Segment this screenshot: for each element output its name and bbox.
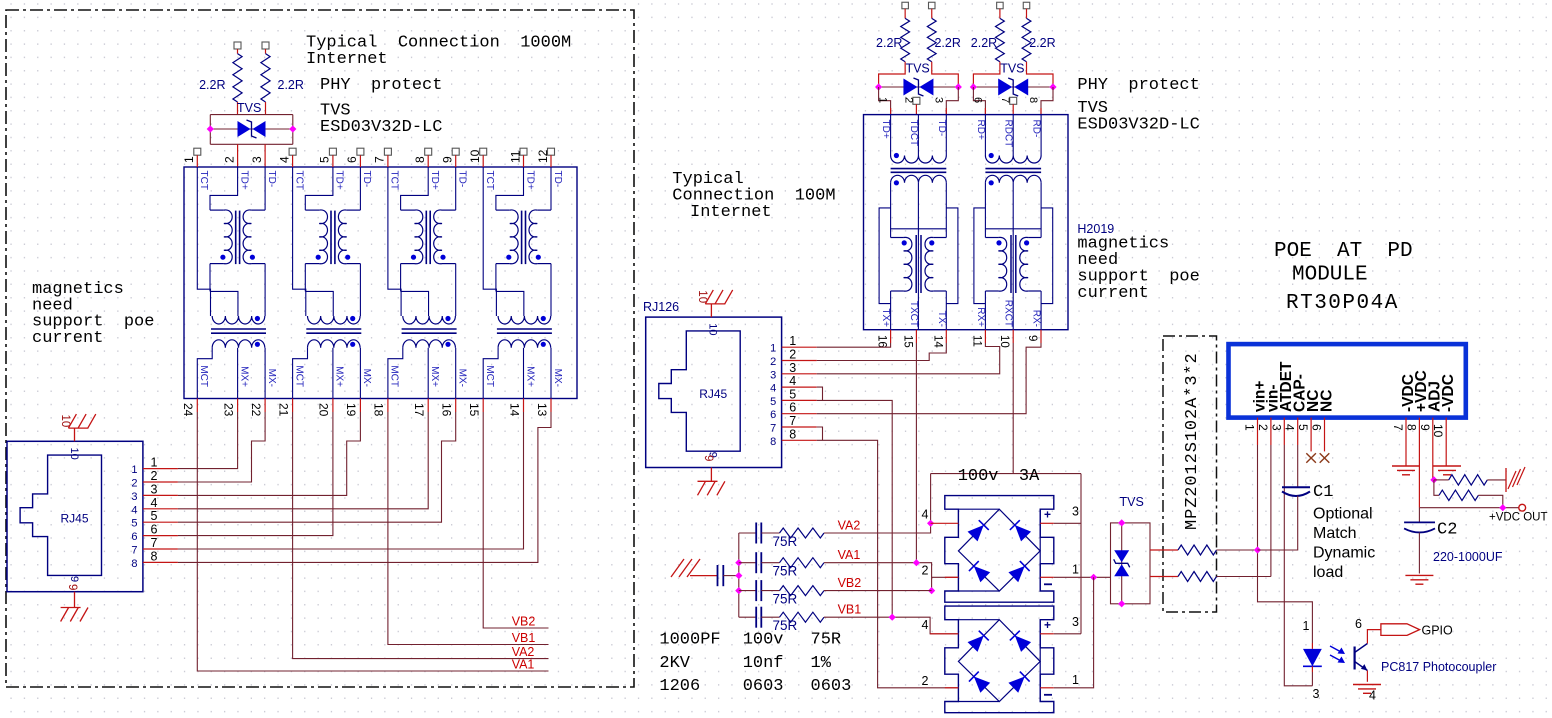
svg-text:-VDC: -VDC	[1440, 374, 1457, 412]
TVS2 loop wires	[1111, 523, 1151, 604]
channel 1 TCT wire	[197, 167, 210, 316]
wire cap to bus	[723, 575, 739, 577]
svg-text:15: 15	[467, 403, 481, 417]
capacitor 1000PF row VB2	[739, 590, 756, 592]
RJ45 left pin 5 stub	[143, 521, 178, 523]
svg-text:PHY protect: PHY protect	[320, 76, 442, 95]
wire net rj1-7 to pin14	[178, 412, 524, 549]
svg-text:14: 14	[931, 335, 943, 348]
svg-text:2.2R: 2.2R	[876, 36, 902, 50]
svg-text:VB2: VB2	[838, 576, 862, 590]
RJ45 left pin 9 wire	[74, 592, 76, 608]
wire net rj1-6 to pin20	[178, 412, 333, 536]
left section dash-dot border	[6, 10, 634, 687]
svg-text:8: 8	[1027, 97, 1039, 103]
svg-text:+VDC OUT: +VDC OUT	[1489, 512, 1547, 524]
svg-text:RX-: RX-	[1031, 310, 1042, 327]
svg-text:22: 22	[249, 403, 263, 417]
svg-text:Internet: Internet	[306, 50, 388, 69]
bridge B1 outline	[945, 496, 1054, 603]
svg-text:TD+: TD+	[429, 171, 440, 190]
wire net rj1-4 to pin17	[178, 412, 428, 509]
port +VDC OUT	[1519, 504, 1526, 511]
svg-text:75R: 75R	[773, 564, 798, 579]
TVS2 diode bidirectional	[1114, 550, 1129, 562]
resistor 2.2R right	[265, 49, 267, 54]
wire net rj1-1 to pin23	[178, 412, 238, 469]
svg-text:5: 5	[131, 518, 137, 530]
capacitor C1	[1282, 486, 1310, 488]
RJ126 pin 7 stub	[782, 426, 817, 428]
svg-text:C2: C2	[1437, 521, 1457, 540]
svg-text:ESD03V32D-LC: ESD03V32D-LC	[320, 118, 442, 137]
bridge B1 pin 1 stub	[1040, 576, 1054, 578]
svg-text:VA2: VA2	[838, 519, 861, 533]
svg-text:7: 7	[999, 97, 1011, 103]
wire bridge2 pin2 stub	[945, 687, 959, 689]
channel 2 transformer T2a core	[330, 211, 332, 265]
svg-text:RD+: RD+	[975, 120, 986, 140]
svg-text:7: 7	[151, 536, 158, 550]
svg-text:MX-: MX-	[361, 369, 372, 387]
svg-text:RD-: RD-	[1031, 120, 1042, 138]
block pin 17 bottom	[427, 399, 429, 413]
resistor 2.2R groupA right	[931, 9, 933, 19]
svg-text:4: 4	[922, 507, 929, 521]
block2 pin 11 bottom	[984, 330, 986, 343]
svg-text:TD-: TD-	[936, 120, 947, 137]
bridge B2 pin 1 stub	[1040, 687, 1054, 689]
100M chR right pin wire	[1040, 291, 1042, 330]
svg-text:10: 10	[68, 448, 80, 460]
RJ45 left pin 6 stub	[143, 535, 178, 537]
ferrite bead FB1	[1150, 549, 1178, 551]
svg-text:TD-: TD-	[552, 171, 563, 188]
resistor 75R row VB1	[761, 616, 779, 618]
100M chL lower transformer right coil	[933, 237, 946, 239]
svg-text:1: 1	[770, 343, 776, 355]
svg-text:3: 3	[131, 491, 137, 503]
svg-text:10: 10	[707, 323, 719, 335]
svg-text:TD-: TD-	[457, 171, 468, 188]
svg-text:MCT: MCT	[198, 365, 209, 387]
svg-text:1: 1	[877, 97, 889, 103]
ground C2	[1405, 574, 1433, 576]
svg-text:1: 1	[1243, 424, 1257, 431]
svg-text:4: 4	[789, 374, 796, 388]
wire net TXCT down to VA1	[915, 343, 917, 563]
svg-text:3: 3	[1313, 687, 1320, 701]
channel 4 transformer T4b top winding	[498, 316, 551, 324]
svg-text:4: 4	[1369, 689, 1376, 703]
bridge B1 diamond	[958, 509, 1040, 591]
bridge B1 pin 3 wire	[1040, 522, 1054, 524]
wires resistors to TVS line group A	[879, 62, 906, 87]
svg-text:RJ45: RJ45	[61, 511, 89, 525]
wire net VA1 row to bridge1 pin2	[824, 563, 932, 591]
svg-text:1: 1	[131, 464, 137, 476]
MPZ dash-dot box	[1163, 336, 1217, 612]
svg-text:TDCT: TDCT	[908, 120, 919, 147]
block pin 18 bottom	[387, 399, 389, 413]
wire TVS to block pins 2 3	[237, 144, 239, 167]
wire plus bus down to bridge pins 3	[1080, 474, 1082, 634]
svg-text:2: 2	[922, 674, 929, 688]
RJ45 connector outline	[646, 317, 782, 467]
svg-text:TVS: TVS	[1000, 62, 1024, 76]
svg-text:RX+: RX+	[975, 307, 986, 327]
svg-text:6: 6	[1355, 617, 1362, 631]
channel 3 center-tap tie wire	[401, 291, 429, 316]
block pin 6 top	[357, 148, 364, 155]
svg-text:2: 2	[789, 348, 796, 362]
wire ADJ pin9 down	[1432, 418, 1434, 480]
channel 1 transformer T1a core	[235, 211, 237, 265]
100M chR transformer core	[985, 168, 1041, 170]
wires TVS to block pins group B	[973, 87, 985, 115]
wire emitter to ground	[1366, 671, 1368, 682]
svg-text:GPIO: GPIO	[1422, 624, 1454, 638]
100M chR center tap long wire	[1012, 183, 1014, 330]
ladder bus vertical	[738, 533, 740, 617]
wires TVS to block pins group A	[879, 87, 891, 115]
svg-text:TVS: TVS	[237, 101, 261, 115]
wire plus bus horizontal	[931, 473, 1081, 475]
RJ126 pin 9 wire	[710, 468, 712, 482]
svg-text:MX-: MX-	[552, 369, 563, 387]
junction dots TVS loop	[207, 125, 214, 132]
wire net rj2-4 join pair	[817, 387, 823, 400]
svg-text:9: 9	[66, 584, 78, 590]
center pin terminal group A	[913, 97, 920, 104]
bridge B1 diode TL	[968, 520, 989, 541]
100M chL lower transformer left coil	[891, 237, 904, 239]
capacitor C-series 10nf	[717, 565, 719, 586]
channel 2 transformer T2a left coil	[305, 209, 319, 211]
wire net rj2-2 to TX- pin14	[817, 343, 947, 361]
block pin 13 bottom	[550, 399, 552, 413]
wire vin- down	[1270, 445, 1272, 577]
svg-text:6: 6	[151, 523, 158, 537]
svg-text:5: 5	[151, 509, 158, 523]
RJ126 pin 1 stub	[782, 346, 817, 348]
svg-text:TXCT: TXCT	[908, 301, 919, 327]
module pin 1 stub	[1257, 418, 1259, 445]
svg-text:4: 4	[277, 156, 291, 163]
svg-text:TD+: TD+	[334, 171, 345, 190]
svg-text:7: 7	[1391, 424, 1405, 431]
100M chL left bracket wire	[879, 208, 891, 304]
wire net VB2 row	[824, 590, 932, 592]
block pin 10 top	[480, 148, 487, 155]
resistor 75R row VB2	[761, 590, 779, 592]
svg-text:12: 12	[536, 149, 550, 163]
wire VA1 descender to bridge1 pin2	[932, 576, 958, 578]
svg-text:TD-: TD-	[266, 171, 277, 188]
svg-text:MPZ2012S102A*3*2: MPZ2012S102A*3*2	[1183, 352, 1202, 530]
transformer block H1 outline	[184, 167, 577, 399]
junction dots TVS group B	[970, 83, 977, 90]
svg-text:MX-: MX-	[266, 369, 277, 387]
channel 1 center-tap tie wire	[210, 291, 238, 316]
RJ45 connector outline	[7, 441, 143, 591]
svg-text:21: 21	[276, 403, 290, 417]
capacitor 1000PF row VA1	[739, 562, 756, 564]
channel 4 transformer T4a core	[521, 211, 523, 265]
100M chR left bracket wire	[974, 208, 986, 304]
channel 2 transformer T2b core	[306, 328, 361, 330]
svg-text:24: 24	[181, 403, 195, 417]
svg-text:1%: 1%	[811, 654, 832, 673]
svg-text:0603: 0603	[743, 677, 784, 696]
bridge B2 pin 3 wire	[1040, 633, 1054, 635]
ground G1	[1392, 465, 1420, 467]
RJ126 pin 4 stub	[782, 386, 817, 388]
svg-text:2.2R: 2.2R	[934, 36, 960, 50]
svg-text:TVS: TVS	[1120, 495, 1144, 509]
svg-text:TD+: TD+	[880, 120, 891, 139]
100M chL transformer bottom winding	[891, 175, 947, 182]
svg-text:8: 8	[789, 427, 796, 441]
100M chL left vertical	[890, 183, 892, 238]
channel 2 TD+ wire	[305, 167, 333, 210]
svg-text:VB2: VB2	[512, 615, 536, 629]
svg-text:8: 8	[151, 549, 158, 563]
block pin 9 top	[452, 148, 459, 155]
junction dots TVS group A	[875, 83, 882, 90]
block pin 1 top	[194, 148, 201, 155]
channel 2 center-tap tie wire	[305, 291, 333, 316]
bridge B1 diode BL	[969, 561, 990, 582]
svg-text:3: 3	[789, 361, 796, 375]
module pin 5 NC stub	[1310, 418, 1312, 452]
svg-text:RJ45: RJ45	[699, 387, 727, 401]
svg-text:TD-: TD-	[361, 171, 372, 188]
svg-text:TD+: TD+	[238, 171, 249, 190]
svg-text:current: current	[32, 329, 103, 348]
svg-text:POE AT PD: POE AT PD	[1274, 240, 1413, 263]
resistor R1 to earth	[1434, 479, 1449, 481]
bridge B2 pin 4 wire	[930, 633, 958, 635]
channel 4 MCT wire	[483, 348, 498, 399]
svg-text:7: 7	[373, 156, 387, 163]
wire bridge1 pin1 to TVS	[1054, 576, 1111, 578]
RJ126 pin 8 stub	[782, 439, 817, 441]
100M chR RDCT wire	[1012, 115, 1014, 156]
resistor 75R row VA2	[761, 532, 779, 534]
svg-text:14: 14	[507, 403, 521, 417]
svg-text:MX+: MX+	[334, 366, 345, 387]
channel 2 MX+ wire	[332, 348, 334, 399]
channel 1 transformer T1b top winding	[212, 316, 265, 324]
ferrite bead FB2	[1150, 576, 1178, 578]
svg-text:10: 10	[998, 335, 1010, 348]
svg-text:7: 7	[770, 423, 776, 435]
RJ45 left pin 2 stub	[143, 481, 178, 483]
wire net rj1-3 to pin19	[178, 412, 361, 495]
channel 1 transformer T1b core	[211, 328, 266, 330]
svg-text:PHY protect: PHY protect	[1077, 76, 1199, 95]
svg-text:9: 9	[441, 156, 455, 163]
svg-text:3: 3	[770, 369, 776, 381]
bridge B2 diode TR	[1010, 631, 1031, 652]
RJ126 pin 2 stub	[782, 360, 817, 362]
block pin 19 bottom	[359, 399, 361, 413]
channel 4 MX- wire	[550, 348, 552, 399]
channel 2 MCT wire	[293, 348, 308, 399]
100M chR left pin wire	[984, 291, 986, 330]
wire +VDC OUT	[1419, 507, 1518, 509]
svg-text:6: 6	[131, 531, 137, 543]
svg-text:1: 1	[151, 456, 158, 470]
channel 2 MX- wire	[359, 348, 361, 399]
svg-text:MCT: MCT	[293, 365, 304, 387]
block2 pin 14 bottom	[945, 330, 947, 343]
svg-text:2: 2	[222, 156, 236, 163]
svg-text:2: 2	[902, 97, 914, 103]
RJ45 left pin 7 stub	[143, 548, 178, 550]
svg-text:MODULE: MODULE	[1292, 264, 1368, 287]
wire net VB1 row to bridge2 pin4	[824, 617, 958, 634]
wire net VA2 from pin21	[293, 412, 549, 659]
channel 3 MCT wire	[388, 348, 403, 399]
wire net rj2-5 spare pair to VB1 node	[817, 400, 893, 617]
LED cathode wire	[1311, 666, 1313, 672]
wire -VDC pin7 to ground	[1405, 418, 1407, 466]
channel 3 transformer T3a core	[425, 211, 427, 265]
svg-text:+: +	[1044, 507, 1051, 521]
wire C2 to ground	[1418, 533, 1420, 574]
svg-text:3: 3	[1072, 615, 1079, 629]
junction dot ADJ	[1430, 476, 1437, 483]
100M chL TD+ wire	[890, 115, 892, 156]
svg-text:2: 2	[770, 356, 776, 368]
block pin 14 bottom	[523, 399, 525, 413]
svg-text:VA2: VA2	[512, 645, 535, 659]
svg-text:8: 8	[131, 558, 137, 570]
svg-text:load: load	[1313, 564, 1343, 581]
100M chR RD+ wire	[984, 115, 986, 156]
100M chL left pin wire	[890, 291, 892, 330]
channel 3 MX- wire	[455, 348, 457, 399]
100M chL TDCT wire	[917, 115, 919, 156]
channel 3 transformer T3a left coil	[401, 209, 415, 211]
channel 1 MX- wire	[264, 348, 266, 399]
RJ45 left pin 8 stub	[143, 561, 178, 563]
svg-text:2: 2	[131, 478, 137, 490]
svg-text:100v: 100v	[743, 631, 784, 650]
wire net VB1 from pin18	[388, 412, 549, 645]
svg-text:TD+: TD+	[524, 171, 535, 190]
svg-text:19: 19	[344, 403, 358, 417]
svg-text:2.2R: 2.2R	[278, 78, 304, 92]
wire CAP- to C1	[1297, 445, 1299, 487]
100M chL lower transformer core	[915, 235, 917, 293]
port GPIO flag	[1381, 624, 1420, 636]
channel 2 TD- wire	[359, 167, 361, 210]
100M chR cross tie wire	[985, 228, 1041, 230]
channel 1 TD+ wire	[210, 167, 238, 210]
terminal square of resistor R-left	[234, 42, 241, 49]
svg-text:3: 3	[151, 482, 158, 496]
svg-text:11: 11	[508, 150, 522, 163]
RJ126 pin 5 stub	[782, 399, 817, 401]
wire C1 bottom to vin+ node	[1258, 496, 1298, 550]
svg-text:TCT: TCT	[484, 171, 495, 190]
TVS diode group B	[973, 86, 1053, 88]
svg-text:4: 4	[131, 504, 137, 516]
channel 2 transformer T2a right coil	[347, 209, 361, 211]
block pin 16 bottom	[455, 399, 457, 413]
svg-text:Internet: Internet	[690, 203, 772, 222]
wire earth to series cap	[690, 575, 718, 577]
block2 pin 9 bottom	[1040, 330, 1042, 343]
100M chR lower transformer right coil	[1028, 237, 1041, 239]
resistor 2.2R left	[237, 49, 239, 54]
svg-text:TVS: TVS	[905, 62, 929, 76]
svg-text:Optional: Optional	[1313, 506, 1373, 523]
channel 1 MCT wire	[197, 348, 212, 399]
RJ126 pin 6 stub	[782, 413, 817, 415]
svg-text:5: 5	[318, 156, 332, 163]
block pin 24 bottom	[196, 399, 198, 413]
svg-text:2.2R: 2.2R	[1029, 36, 1055, 50]
wire collector to GPIO	[1367, 630, 1381, 644]
svg-text:8: 8	[413, 156, 427, 163]
svg-text:2.2R: 2.2R	[971, 36, 997, 50]
svg-text:Match: Match	[1313, 525, 1357, 542]
block2 pin 15 bottom	[915, 330, 917, 343]
svg-text:1: 1	[789, 334, 796, 348]
100M chL TD- wire	[945, 115, 947, 156]
bridge B2 diode BR	[1008, 672, 1029, 693]
bridge B1 pin 4 wire	[931, 522, 959, 524]
svg-text:TCT: TCT	[198, 171, 209, 190]
svg-text:16: 16	[440, 403, 454, 417]
channel 3 TD- wire	[455, 167, 457, 210]
100M chR transformer bottom winding	[985, 175, 1041, 183]
ground G2	[1433, 465, 1461, 467]
channel 4 TCT wire	[483, 167, 496, 316]
bridge B1 connector lines	[958, 508, 999, 510]
svg-text:10: 10	[59, 415, 71, 428]
svg-text:6: 6	[971, 97, 983, 103]
svg-text:MCT: MCT	[484, 365, 495, 387]
wire +VDC pin8 down	[1418, 418, 1420, 508]
module pin 6 NC stub	[1324, 418, 1326, 452]
channel 4 transformer T4b core	[497, 328, 552, 330]
bridge B2 diode TL	[968, 631, 989, 652]
svg-text:MX+: MX+	[238, 366, 249, 387]
100M chR left vertical	[984, 183, 986, 238]
channel 2 transformer T2b top winding	[308, 316, 361, 324]
wire vin+ down to LED anode	[1258, 445, 1313, 643]
wire net rj1-2 to pin22	[178, 412, 265, 482]
wire net rj2-6 to RX- pin9	[817, 343, 1041, 414]
svg-text:RT30P04A: RT30P04A	[1286, 292, 1399, 315]
resistor 2.2R groupA left	[904, 9, 906, 19]
svg-text:16: 16	[876, 335, 888, 348]
svg-text:6: 6	[345, 156, 359, 163]
resistor 2.2R groupB right	[1026, 9, 1028, 19]
svg-text:VA1: VA1	[512, 658, 535, 672]
channel 1 transformer T1b bottom winding	[212, 340, 265, 348]
bridge B2 diode BL	[969, 672, 990, 693]
wires resistors to TVS line group B	[973, 62, 1000, 87]
wire plus bus to bridge1 AC	[930, 474, 932, 524]
svg-text:ESD03V32D-LC: ESD03V32D-LC	[1077, 116, 1199, 135]
svg-text:TX-: TX-	[936, 311, 947, 327]
